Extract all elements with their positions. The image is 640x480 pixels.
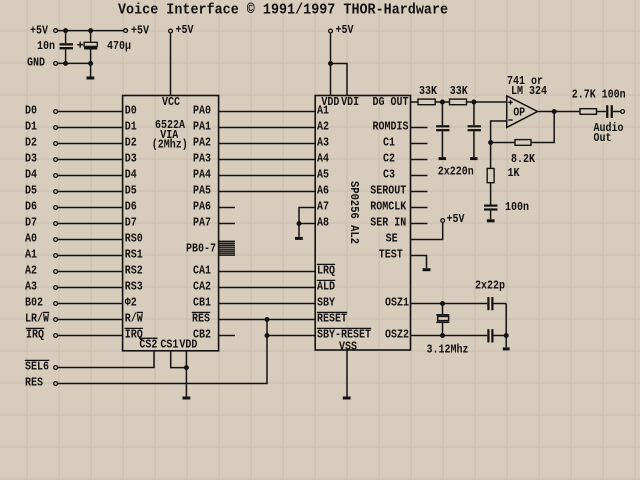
node D6 terminal [54,206,58,210]
ground for A7/A8 [295,237,303,240]
wire VDI branch [331,64,348,96]
svg-text:PB0-7: PB0-7 [186,241,216,255]
wire U2 VSS down [346,350,348,396]
pin + of op-amp [508,101,512,103]
svg-text:2x220n: 2x220n [438,164,474,178]
bus PB0-7 hatch [219,241,235,255]
svg-text:A2: A2 [317,119,329,133]
op IC U2 SP0256 AL2 body [315,96,410,351]
capacitor C 220n first [441,102,443,125]
svg-text:10n: 10n [37,39,55,53]
svg-text:ALD: ALD [317,279,335,293]
ground under U1 VDD [183,397,191,400]
svg-text:IRQ: IRQ [125,327,143,341]
junction R1/R2 node [440,100,445,105]
svg-text:OSZ2: OSZ2 [385,327,409,341]
svg-text:VSS: VSS [339,339,357,353]
svg-text:C3: C3 [383,167,395,181]
capacitor C 100n output [606,105,608,118]
svg-text:CB1: CB1 [193,295,211,309]
capacitor C 220n second [473,102,475,125]
wire U1 VDD pin down [185,351,187,397]
wire SE to +5V [411,222,443,239]
junction R2/opamp node [471,100,476,105]
wire A2 to U1 RS2 [58,271,123,273]
node LR/W terminal [54,318,58,322]
svg-text:C2: C2 [383,151,395,165]
wire 22p common leg [505,304,507,348]
wire A3 to U1 RS3 [58,287,123,289]
svg-text:A6: A6 [317,183,329,197]
resistor R4 8.2K [515,140,531,146]
svg-text:D5: D5 [25,183,37,197]
junction rail/470u [88,28,93,33]
junction GND/470u [88,61,93,66]
junction GND/10n [63,61,68,66]
node SEL6 terminal [54,366,58,370]
svg-text:470µ: 470µ [107,39,131,53]
svg-text:D4: D4 [25,167,37,181]
node RES terminal [54,382,58,386]
svg-text:33K: 33K [450,84,469,98]
wire DG OUT to op-amp input [411,101,507,103]
node +5V terminal for U1 VCC [169,29,173,33]
svg-text:+5V: +5V [176,23,195,37]
wire U1 PA2 to U2 A3 [219,143,316,145]
svg-text:A1: A1 [25,247,37,261]
svg-text:3.12Mhz: 3.12Mhz [427,343,469,357]
svg-text:RS0: RS0 [125,231,143,245]
svg-text:RESET: RESET [317,311,347,325]
ground under TEST [423,268,431,271]
node IRQ terminal [54,334,58,338]
wire D2 to U1 D2 [58,143,123,145]
wire U1 RES to U2 RESET [219,319,316,321]
junction SBY-RESET tap [265,333,270,338]
resistor R3 2.7K [580,109,597,115]
svg-text:TEST: TEST [379,247,403,261]
svg-text:CB2: CB2 [193,327,211,341]
svg-text:Voice Interface © 1991/1997 TH: Voice Interface © 1991/1997 THOR-Hardwar… [118,3,448,19]
svg-text:Φ2: Φ2 [125,295,137,309]
wire D4 to U1 D4 [58,175,123,177]
node D4 terminal [54,174,58,178]
svg-text:IRQ: IRQ [26,327,44,341]
capacitor C 22p bottom [487,329,489,342]
svg-text:ROMCLK: ROMCLK [370,199,407,213]
svg-text:33K: 33K [419,84,438,98]
svg-text:(2Mhz): (2Mhz) [152,137,188,151]
junction OSZ2/crystal [440,333,445,338]
svg-text:RES: RES [192,311,210,325]
resistor R1 33K [418,99,435,105]
capacitor C 22p top [487,297,489,310]
svg-text:D0: D0 [25,103,37,117]
svg-text:+5V: +5V [447,212,466,226]
node A0 terminal [54,238,58,242]
wire D1 to U1 D1 [58,127,123,129]
svg-text:A0: A0 [25,231,37,245]
svg-text:SER IN: SER IN [370,215,406,229]
svg-text:GND: GND [27,56,45,70]
svg-text:DG OUT: DG OUT [373,95,409,109]
wire U1 CA1 to U2 LRQ [219,271,316,273]
svg-text:D7: D7 [25,215,37,229]
svg-text:D6: D6 [125,199,137,213]
wire LR/W to U1 R/W [58,319,123,321]
svg-text:PA6: PA6 [193,199,211,213]
svg-text:1K: 1K [508,166,521,180]
wire A0 to U1 RS0 [58,239,123,241]
pin - of op-amp [508,119,512,121]
svg-text:2x22p: 2x22p [475,279,505,293]
junction OSZ1/crystal [440,301,445,306]
node D7 terminal [54,222,58,226]
svg-text:ROMDIS: ROMDIS [373,119,409,133]
svg-text:D0: D0 [125,103,137,117]
svg-text:D7: D7 [125,215,137,229]
wire U1 PA4 to U2 A5 [219,175,316,177]
wire op-amp output [538,111,606,113]
svg-text:+5V: +5V [30,23,49,37]
svg-text:OSZ1: OSZ1 [385,295,409,309]
wire U1 CS1 tie [171,351,187,368]
svg-text:PA5: PA5 [193,183,211,197]
wire IRQ to U1 IRQ [58,335,123,337]
svg-text:8.2K: 8.2K [511,152,536,166]
wire RES run to U2 [58,320,267,384]
svg-text:+5V: +5V [336,23,355,37]
svg-text:CA2: CA2 [193,279,211,293]
svg-text:B02: B02 [25,295,43,309]
resistor R2 33K [450,99,467,105]
op-amp U3 741 or LM324 [507,96,538,128]
svg-text:PA0: PA0 [193,103,211,117]
svg-text:SEL6: SEL6 [25,359,49,373]
capacitor C 100n to ground [484,205,498,207]
node +5V terminal for U2 VDD [329,29,333,33]
node D3 terminal [54,158,58,162]
svg-text:LM 324: LM 324 [511,84,547,98]
svg-text:PA1: PA1 [193,119,211,133]
svg-text:VCC: VCC [162,95,180,109]
svg-text:R/W: R/W [125,311,144,325]
wire RES net to U2 SBY-RESET [267,335,315,337]
wire U1 PA5 to U2 A6 [219,191,316,193]
svg-text:+5V: +5V [131,23,150,37]
node D1 terminal [54,126,58,130]
svg-text:RS1: RS1 [125,247,143,261]
svg-text:D6: D6 [25,199,37,213]
svg-text:PA4: PA4 [193,167,211,181]
node B02 terminal [54,302,58,306]
svg-text:LRQ: LRQ [317,263,335,277]
node D5 terminal [54,190,58,194]
wire D0 to U1 D0 [58,111,123,113]
capacitor C 470u electrolytic [90,31,92,43]
wire U1 CB1 to U2 SBY [219,303,316,305]
op IC U1 6522A VIA body [123,96,219,351]
junction VDD/VDI [328,61,333,66]
svg-text:CS1: CS1 [160,337,178,351]
wire VDD feed [330,33,332,96]
svg-text:A4: A4 [317,151,329,165]
wire D6 to U1 D6 [58,207,123,209]
svg-text:PA7: PA7 [193,215,211,229]
svg-text:RS2: RS2 [125,263,143,277]
svg-text:100n: 100n [505,200,529,214]
wire A1 to U1 RS1 [58,255,123,257]
svg-text:OP: OP [513,106,525,120]
svg-text:D1: D1 [25,119,37,133]
svg-text:VDI: VDI [341,95,359,109]
svg-text:PA3: PA3 [193,151,211,165]
junction A7/A8 tie [297,221,302,226]
svg-text:C1: C1 [383,135,395,149]
capacitor C 10n [65,31,67,44]
svg-text:A2: A2 [25,263,37,277]
ground under 22p [503,347,510,350]
wire U1 CA2 to U2 ALD [219,287,316,289]
svg-text:A3: A3 [25,279,37,293]
node +5V terminal right [124,29,128,33]
svg-text:A3: A3 [317,135,329,149]
wire B02 to U1 Φ2 [58,303,123,305]
svg-text:2.7K 100n: 2.7K 100n [572,88,626,102]
junction RESET/RES net [265,317,270,322]
node A1 terminal [54,254,58,258]
junction rail/10n [63,28,68,33]
wire U1 PA0 to U2 A1 [219,111,316,113]
svg-text:PA2: PA2 [193,135,211,149]
svg-text:SBY: SBY [317,295,336,309]
svg-text:D2: D2 [125,135,137,149]
junction 22p common [504,333,509,338]
wire +5V rail [58,30,124,32]
wire U1 PA3 to U2 A4 [219,159,316,161]
svg-text:SEROUT: SEROUT [370,183,406,197]
svg-text:LR/W: LR/W [25,311,50,325]
resistor R5 1K [490,143,492,205]
wire OSZ1 to C trim [411,303,488,305]
svg-text:D3: D3 [25,151,37,165]
svg-text:VDD: VDD [321,95,339,109]
ground under 100n [487,219,495,222]
ground under U2 VSS [343,397,351,400]
svg-text:SE: SE [386,231,398,245]
node Audio Out terminal [621,110,625,114]
svg-text:A5: A5 [317,167,329,181]
wire SEL6 to U1 CS2 [58,351,154,368]
svg-text:CA1: CA1 [193,263,211,277]
node +5V input terminal [54,29,58,33]
svg-text:D3: D3 [125,151,137,165]
ground under 470u [87,77,95,80]
wire A8 tie to ground [298,224,300,237]
node A2 terminal [54,270,58,274]
svg-text:Out: Out [594,131,612,145]
junction CS1/VDD tie [184,365,189,370]
node A3 terminal [54,286,58,290]
node +5V terminal for SE [441,219,445,223]
crystal X1 3.12Mhz [442,304,444,315]
svg-text:RS3: RS3 [125,279,143,293]
wire D5 to U1 D5 [58,191,123,193]
svg-text:RES: RES [25,375,43,389]
wire 8.2K to inverting node [491,142,515,144]
svg-text:D2: D2 [25,135,37,149]
svg-text:D1: D1 [125,119,137,133]
wire D3 to U1 D3 [58,159,123,161]
wire inverting input [491,121,507,143]
svg-text:SP0256 AL2: SP0256 AL2 [347,181,361,244]
wire OSZ2 to C trim [411,335,488,337]
wire feedback loop [531,112,554,143]
node D0 terminal [54,110,58,114]
svg-text:D5: D5 [125,183,137,197]
node GND terminal [54,62,58,66]
wire GND rail [58,62,91,64]
svg-text:A8: A8 [317,215,329,229]
junction inverting node [488,140,493,145]
node D2 terminal [54,142,58,146]
wire U1 PA1 to U2 A2 [219,127,316,129]
junction output/feedback [552,109,557,114]
wire VCC feed [170,33,172,96]
wire TEST to ground [411,256,427,268]
wire D7 to U1 D7 [58,223,123,225]
svg-text:A7: A7 [317,199,329,213]
svg-text:D4: D4 [125,167,137,181]
